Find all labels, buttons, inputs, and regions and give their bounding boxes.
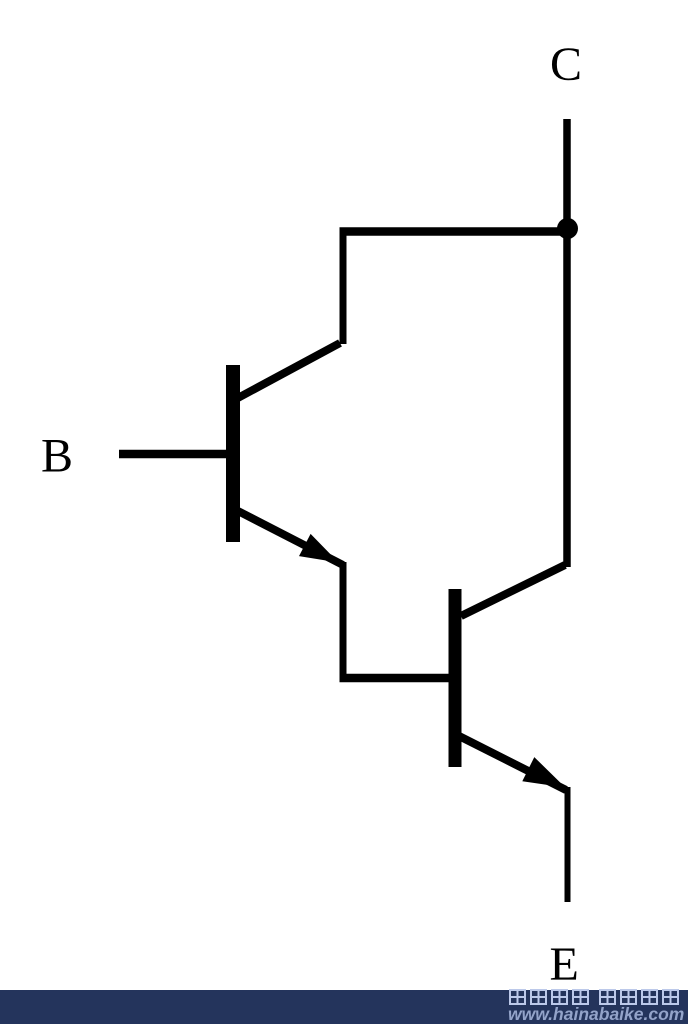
wire Q1 collector riser [340,228,347,344]
wire Q2 collector diagonal [461,565,565,616]
transistor Q2 base bar [449,589,462,767]
arrowhead Q2 emitter [522,757,565,787]
wire top horizontal [340,227,571,236]
wire Q1 emitter vertical [340,562,347,681]
wire Q2 emitter vertical [565,787,571,902]
watermark bar [0,990,688,1024]
junction dot collector node [557,218,578,239]
transistor Q1 base bar [226,365,240,542]
wire Q1 emitter diagonal [236,510,343,565]
wire Q2 emitter diagonal [459,736,566,790]
wire Q1 collector diagonal [236,343,340,399]
wire Q1 base lead [119,450,227,459]
arrowhead Q1 emitter [299,534,339,563]
wire collector lead C vertical [563,119,571,567]
svg-text:www.hainabaike.com: www.hainabaike.com [508,1004,684,1024]
wire Q2 base horizontal [340,674,451,683]
